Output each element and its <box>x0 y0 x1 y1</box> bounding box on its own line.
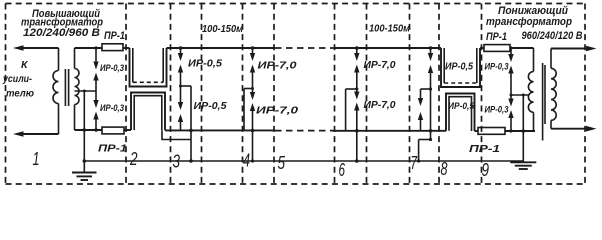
svg-text:960/240/120 В: 960/240/120 В <box>522 30 583 42</box>
svg-text:9: 9 <box>482 160 490 180</box>
svg-text:120/240/960 В: 120/240/960 В <box>23 27 100 39</box>
svg-text:ИР-0,5: ИР-0,5 <box>445 61 473 73</box>
svg-text:7: 7 <box>411 153 418 173</box>
svg-text:ИР-0,5: ИР-0,5 <box>448 101 475 112</box>
svg-text:ИР-0,3: ИР-0,3 <box>100 63 125 74</box>
svg-text:100-150м: 100-150м <box>369 23 410 35</box>
svg-text:ПР-1: ПР-1 <box>98 143 127 155</box>
svg-text:ИР-0,5: ИР-0,5 <box>194 100 227 112</box>
svg-text:ПР-1: ПР-1 <box>486 31 507 43</box>
svg-text:100-150м: 100-150м <box>202 23 243 35</box>
svg-text:6: 6 <box>339 160 346 180</box>
svg-text:ИР-0,5: ИР-0,5 <box>188 58 222 70</box>
svg-text:ИР-0,3: ИР-0,3 <box>485 105 510 116</box>
svg-text:ИР-7,0: ИР-7,0 <box>364 99 396 111</box>
svg-text:3: 3 <box>173 152 181 172</box>
svg-text:телю: телю <box>6 87 34 99</box>
svg-text:ИР-0,3: ИР-0,3 <box>485 62 510 73</box>
svg-text:4: 4 <box>243 151 250 171</box>
svg-text:1: 1 <box>33 149 40 169</box>
svg-text:ИР-7,0: ИР-7,0 <box>258 60 297 72</box>
svg-text:ИР-7,0: ИР-7,0 <box>256 105 298 117</box>
svg-text:ИР-7,0: ИР-7,0 <box>364 59 396 71</box>
svg-text:ПР-1: ПР-1 <box>104 30 125 42</box>
svg-text:ИР-0,3: ИР-0,3 <box>100 103 125 114</box>
svg-text:ПР-1: ПР-1 <box>469 143 500 155</box>
svg-text:5: 5 <box>278 153 286 173</box>
svg-text:2: 2 <box>129 149 137 169</box>
svg-text:8: 8 <box>441 159 448 179</box>
svg-text:усили-: усили- <box>2 73 32 85</box>
svg-text:трансформатор: трансформатор <box>486 16 572 28</box>
